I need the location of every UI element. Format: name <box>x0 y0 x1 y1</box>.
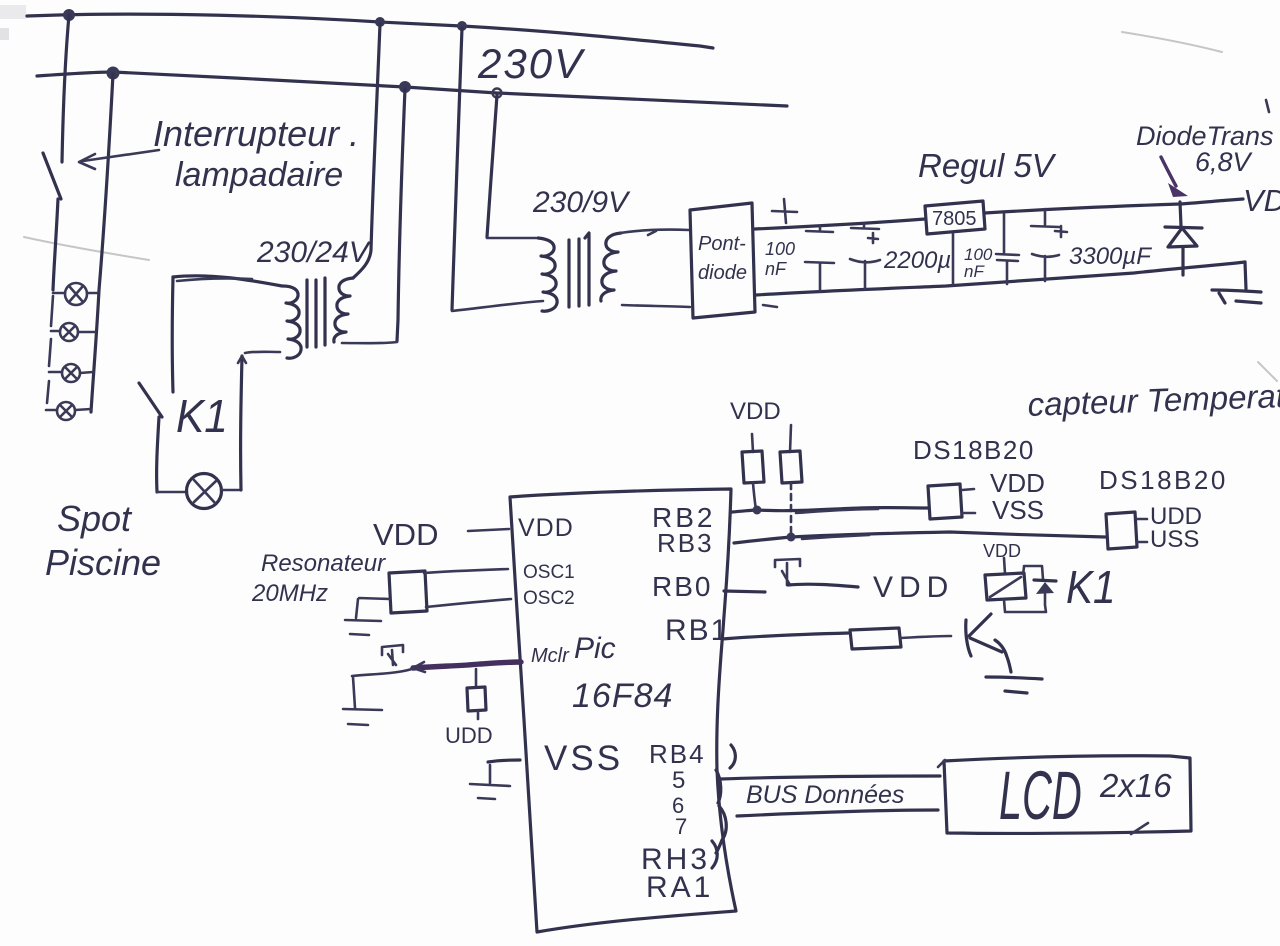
svg-text:Spot: Spot <box>57 498 133 539</box>
svg-text:OSC2: OSC2 <box>523 588 575 609</box>
svg-text:VDD: VDD <box>518 514 574 542</box>
svg-text:DS18B20: DS18B20 <box>1099 465 1228 495</box>
svg-text:USS: USS <box>1150 526 1199 553</box>
svg-text:Piscine: Piscine <box>45 542 161 583</box>
svg-text:OSC1: OSC1 <box>523 562 575 583</box>
svg-text:Interrupteur .: Interrupteur . <box>153 113 359 154</box>
svg-text:5: 5 <box>672 767 685 794</box>
svg-text:Mclr: Mclr <box>531 645 570 667</box>
svg-text:VDD: VDD <box>983 541 1021 561</box>
svg-text:VDD: VDD <box>873 571 954 604</box>
svg-text:2x16: 2x16 <box>1099 767 1172 804</box>
svg-text:diode: diode <box>698 262 747 284</box>
svg-text:Pic: Pic <box>574 632 616 665</box>
svg-text:2200µ: 2200µ <box>883 247 951 274</box>
svg-text:16F84: 16F84 <box>572 677 673 715</box>
svg-text:6,8V: 6,8V <box>1195 147 1254 177</box>
svg-text:230/24V: 230/24V <box>256 236 372 269</box>
svg-text:nF: nF <box>964 262 985 281</box>
svg-text:230/9V: 230/9V <box>532 186 631 219</box>
svg-text:RB1: RB1 <box>665 614 729 647</box>
svg-text:K1: K1 <box>1066 563 1116 614</box>
svg-text:Pont-: Pont- <box>698 233 746 255</box>
svg-text:230V: 230V <box>477 40 586 87</box>
svg-text:7805: 7805 <box>932 208 977 230</box>
svg-text:20MHz: 20MHz <box>251 580 328 607</box>
svg-text:VSS: VSS <box>992 495 1044 525</box>
svg-text:Resonateur: Resonateur <box>261 550 386 577</box>
svg-text:VSS: VSS <box>544 739 623 778</box>
svg-text:RB0: RB0 <box>652 571 712 602</box>
svg-text:RA1: RA1 <box>646 871 713 904</box>
svg-text:LCD: LCD <box>999 757 1082 835</box>
svg-text:K1: K1 <box>176 391 228 442</box>
svg-text:RB4: RB4 <box>649 739 706 769</box>
svg-text:VDD: VDD <box>373 517 438 552</box>
svg-text:lampadaire: lampadaire <box>175 156 343 194</box>
svg-text:VDD: VDD <box>730 398 781 425</box>
svg-text:Regul 5V: Regul 5V <box>918 147 1057 184</box>
svg-text:UDD: UDD <box>445 723 493 748</box>
svg-text:VDD: VDD <box>990 468 1045 498</box>
svg-text:BUS Données: BUS Données <box>746 781 904 809</box>
svg-text:nF: nF <box>765 259 787 279</box>
svg-text:VD: VD <box>1243 183 1280 218</box>
svg-text:RB3: RB3 <box>657 528 714 558</box>
svg-text:7: 7 <box>675 814 687 839</box>
svg-text:DS18B20: DS18B20 <box>913 435 1035 465</box>
svg-text:100: 100 <box>765 239 795 259</box>
svg-text:3300µF: 3300µF <box>1069 243 1152 270</box>
